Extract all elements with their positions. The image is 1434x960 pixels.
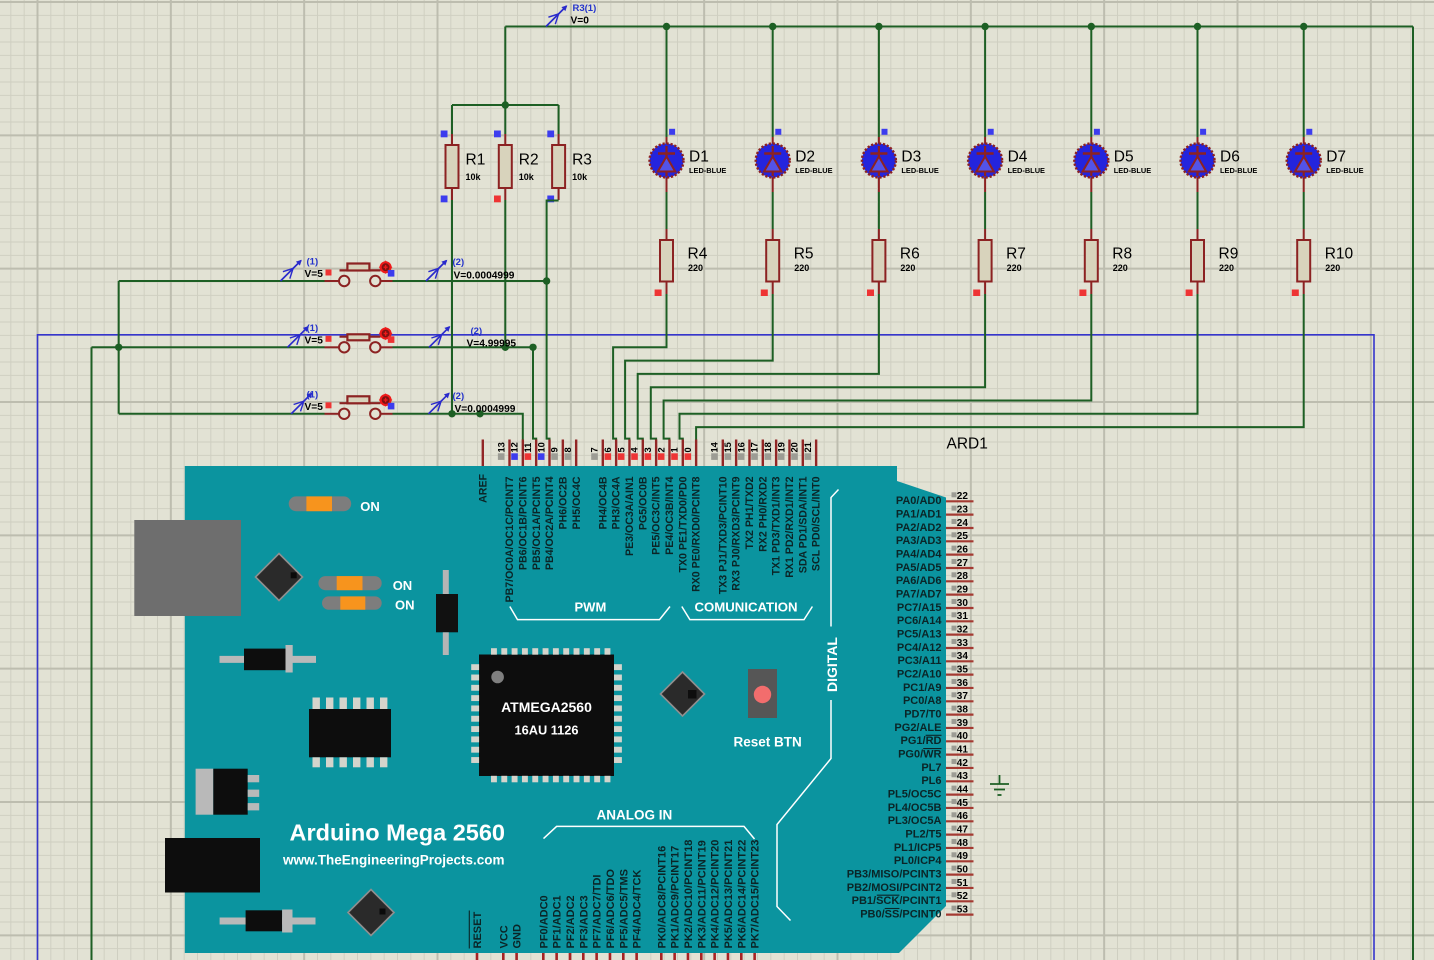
svg-text:220: 220	[1007, 263, 1022, 273]
svg-text:PB3/MISO/PCINT3: PB3/MISO/PCINT3	[847, 868, 942, 880]
svg-text:PF3/ADC3: PF3/ADC3	[578, 895, 590, 948]
svg-text:TX1 PD3/TXD1/INT3: TX1 PD3/TXD1/INT3	[771, 476, 783, 575]
svg-text:PA3/AD3: PA3/AD3	[896, 535, 942, 547]
svg-text:D5: D5	[1114, 149, 1134, 166]
svg-text:ARD1: ARD1	[947, 436, 988, 453]
svg-text:PC4/A12: PC4/A12	[897, 642, 942, 654]
svg-text:GND: GND	[512, 924, 524, 949]
svg-text:220: 220	[794, 263, 809, 273]
svg-text:R2: R2	[519, 152, 539, 169]
svg-text:R1: R1	[466, 152, 486, 169]
svg-text:LED-BLUE: LED-BLUE	[689, 166, 726, 175]
svg-text:PB5/OC1A/PCINT5: PB5/OC1A/PCINT5	[531, 476, 543, 570]
svg-text:PF7/ADC7/TDI: PF7/ADC7/TDI	[592, 875, 604, 949]
svg-text:PL6: PL6	[921, 775, 941, 787]
svg-text:V=0: V=0	[571, 16, 590, 27]
svg-text:31: 31	[957, 611, 969, 622]
svg-text:ATMEGA2560: ATMEGA2560	[501, 699, 592, 715]
svg-text:V=0.0004999: V=0.0004999	[454, 270, 515, 281]
svg-text:18: 18	[763, 442, 773, 452]
svg-text:(2): (2)	[453, 391, 465, 402]
svg-text:41: 41	[957, 744, 969, 755]
svg-text:PA7/AD7: PA7/AD7	[896, 588, 942, 600]
svg-text:26: 26	[957, 544, 969, 555]
svg-text:RX1 PD2/RXD1/INT2: RX1 PD2/RXD1/INT2	[784, 476, 796, 577]
svg-text:PK1/ADC9/PCINT17: PK1/ADC9/PCINT17	[670, 846, 682, 949]
svg-text:52: 52	[957, 891, 969, 902]
svg-text:V=0.0004999: V=0.0004999	[455, 404, 516, 415]
svg-text:10k: 10k	[572, 172, 588, 182]
svg-text:D6: D6	[1220, 149, 1240, 166]
svg-text:51: 51	[957, 878, 969, 889]
svg-text:2: 2	[656, 447, 666, 452]
svg-text:R10: R10	[1325, 246, 1354, 263]
svg-text:23: 23	[957, 504, 969, 515]
svg-text:LED-BLUE: LED-BLUE	[795, 166, 832, 175]
svg-text:R3: R3	[572, 152, 592, 169]
svg-text:www.TheEngineeringProjects.com: www.TheEngineeringProjects.com	[282, 853, 505, 868]
svg-text:PL1/ICP5: PL1/ICP5	[894, 842, 942, 854]
svg-text:PB0/SS/PCINT0: PB0/SS/PCINT0	[860, 908, 941, 920]
svg-text:45: 45	[957, 798, 969, 809]
svg-text:PG0/WR: PG0/WR	[898, 748, 941, 760]
svg-text:0: 0	[683, 447, 693, 452]
svg-text:37: 37	[957, 691, 969, 702]
svg-text:22: 22	[957, 491, 969, 502]
svg-text:PB4/OC2A/PCINT4: PB4/OC2A/PCINT4	[544, 476, 556, 570]
svg-text:PF2/ADC2: PF2/ADC2	[565, 895, 577, 948]
svg-text:ANALOG IN: ANALOG IN	[597, 808, 673, 823]
svg-text:AREF: AREF	[477, 473, 489, 502]
svg-text:42: 42	[957, 758, 969, 769]
svg-text:47: 47	[957, 824, 969, 835]
svg-text:17: 17	[750, 442, 760, 452]
svg-text:PG5/OC0B: PG5/OC0B	[637, 476, 649, 530]
svg-text:10k: 10k	[466, 172, 482, 182]
svg-text:19: 19	[776, 442, 786, 452]
svg-text:LED-BLUE: LED-BLUE	[1326, 166, 1363, 175]
svg-text:PL2/T5: PL2/T5	[905, 828, 941, 840]
svg-text:R8: R8	[1112, 246, 1132, 263]
svg-text:V=4.99995: V=4.99995	[467, 338, 517, 349]
svg-text:PC6/A14: PC6/A14	[897, 615, 943, 627]
svg-text:PE5/OC3C/INT5: PE5/OC3C/INT5	[651, 476, 663, 554]
svg-text:D2: D2	[795, 149, 815, 166]
svg-text:SDA PD1/SDA/INT1: SDA PD1/SDA/INT1	[797, 476, 809, 573]
svg-text:R7: R7	[1006, 246, 1026, 263]
svg-text:PL3/OC5A: PL3/OC5A	[888, 815, 942, 827]
svg-text:PB6/OC1B/PCINT6: PB6/OC1B/PCINT6	[517, 476, 529, 570]
svg-text:Reset BTN: Reset BTN	[734, 735, 802, 750]
svg-text:16: 16	[736, 442, 746, 452]
svg-text:44: 44	[957, 784, 969, 795]
svg-text:ON: ON	[360, 499, 380, 514]
svg-text:29: 29	[957, 584, 969, 595]
svg-text:PK2/ADC10/PCINT18: PK2/ADC10/PCINT18	[683, 840, 695, 949]
svg-text:24: 24	[957, 518, 969, 529]
svg-text:PC0/A8: PC0/A8	[903, 695, 942, 707]
svg-text:46: 46	[957, 811, 969, 822]
svg-text:PC1/A9: PC1/A9	[903, 682, 942, 694]
svg-text:36: 36	[957, 678, 969, 689]
svg-text:V=5: V=5	[305, 269, 324, 280]
svg-text:48: 48	[957, 838, 969, 849]
svg-text:4: 4	[630, 447, 640, 453]
svg-text:RX0 PE0/RXD0/PCINT8: RX0 PE0/RXD0/PCINT8	[691, 476, 703, 592]
svg-text:220: 220	[1113, 263, 1128, 273]
svg-text:(2): (2)	[453, 257, 465, 268]
svg-text:27: 27	[957, 558, 969, 569]
svg-text:39: 39	[957, 718, 969, 729]
svg-text:53: 53	[957, 904, 969, 915]
svg-text:11: 11	[523, 443, 533, 453]
svg-text:PA5/AD5: PA5/AD5	[896, 562, 942, 574]
svg-text:LED-BLUE: LED-BLUE	[1220, 166, 1257, 175]
svg-text:15: 15	[723, 442, 733, 452]
svg-text:(1): (1)	[307, 389, 319, 400]
svg-text:30: 30	[957, 598, 969, 609]
svg-text:PA1/AD1: PA1/AD1	[896, 508, 942, 520]
svg-text:1: 1	[670, 447, 680, 452]
svg-text:PK3/ADC11/PCINT19: PK3/ADC11/PCINT19	[696, 840, 708, 948]
svg-text:PK7/ADC15/PCINT23: PK7/ADC15/PCINT23	[750, 840, 762, 949]
svg-text:PB2/MOSI/PCINT2: PB2/MOSI/PCINT2	[847, 882, 942, 894]
svg-text:34: 34	[957, 651, 969, 662]
svg-text:(1): (1)	[307, 257, 319, 268]
svg-text:PA6/AD6: PA6/AD6	[896, 575, 942, 587]
svg-text:PE3/OC3A/AIN1: PE3/OC3A/AIN1	[624, 476, 636, 556]
svg-text:PWM: PWM	[575, 600, 607, 615]
svg-text:DIGITAL: DIGITAL	[824, 637, 840, 692]
svg-text:PK6/ADC14/PCINT22: PK6/ADC14/PCINT22	[736, 840, 748, 949]
svg-text:D7: D7	[1326, 149, 1346, 166]
svg-text:RESET: RESET	[472, 912, 484, 949]
svg-text:PL5/OC5C: PL5/OC5C	[888, 788, 942, 800]
svg-text:49: 49	[957, 851, 969, 862]
svg-text:LED-BLUE: LED-BLUE	[901, 166, 938, 175]
svg-text:D3: D3	[901, 149, 921, 166]
svg-text:R4: R4	[688, 246, 708, 263]
svg-text:RX3 PJ0/RXD3/PCINT9: RX3 PJ0/RXD3/PCINT9	[731, 476, 743, 590]
svg-text:(2): (2)	[471, 326, 483, 337]
svg-text:220: 220	[1325, 263, 1340, 273]
svg-text:PC7/A15: PC7/A15	[897, 602, 942, 614]
svg-text:20: 20	[790, 442, 800, 452]
svg-text:PB1/SCK/PCINT1: PB1/SCK/PCINT1	[852, 895, 942, 907]
svg-text:220: 220	[1219, 263, 1234, 273]
svg-text:PL7: PL7	[921, 762, 941, 774]
svg-text:PG2/ALE: PG2/ALE	[894, 722, 941, 734]
svg-text:PL0/ICP4: PL0/ICP4	[894, 855, 943, 867]
svg-text:10k: 10k	[519, 172, 535, 182]
svg-text:7: 7	[590, 447, 600, 452]
svg-text:13: 13	[496, 442, 506, 452]
svg-text:21: 21	[803, 442, 813, 452]
svg-text:33: 33	[957, 638, 969, 649]
svg-text:3: 3	[643, 447, 653, 452]
svg-text:28: 28	[957, 571, 969, 582]
svg-text:R5: R5	[794, 246, 814, 263]
svg-text:35: 35	[957, 664, 969, 675]
svg-text:PH6/OC2B: PH6/OC2B	[557, 476, 569, 529]
svg-text:LED-BLUE: LED-BLUE	[1114, 166, 1151, 175]
svg-text:220: 220	[900, 263, 915, 273]
svg-text:12: 12	[510, 442, 520, 452]
svg-text:D1: D1	[689, 149, 709, 166]
svg-text:10: 10	[536, 442, 546, 452]
svg-text:PK5/ADC13/PCINT21: PK5/ADC13/PCINT21	[723, 840, 735, 949]
svg-text:VCC: VCC	[498, 925, 510, 948]
svg-text:PK0/ADC8/PCINT16: PK0/ADC8/PCINT16	[656, 846, 668, 949]
svg-text:PK4/ADC12/PCINT20: PK4/ADC12/PCINT20	[710, 840, 722, 949]
svg-text:25: 25	[957, 531, 969, 542]
svg-text:8: 8	[563, 447, 573, 452]
svg-text:TX3 PJ1/TXD3/PCINT10: TX3 PJ1/TXD3/PCINT10	[717, 476, 729, 594]
svg-text:5: 5	[616, 447, 626, 452]
svg-text:(1): (1)	[307, 323, 319, 334]
svg-text:32: 32	[957, 624, 969, 635]
svg-text:Arduino Mega 2560: Arduino Mega 2560	[290, 820, 505, 846]
svg-text:V=5: V=5	[305, 335, 324, 346]
svg-text:PG1/RD: PG1/RD	[901, 735, 942, 747]
svg-text:V=5: V=5	[305, 402, 324, 413]
svg-text:16AU 1126: 16AU 1126	[514, 723, 578, 738]
svg-text:PF0/ADC0: PF0/ADC0	[538, 895, 550, 948]
svg-text:TX0 PE1/TXD0/PD0: TX0 PE1/TXD0/PD0	[677, 476, 689, 572]
svg-text:PF5/ADC5/TMS: PF5/ADC5/TMS	[618, 869, 630, 948]
svg-text:40: 40	[957, 731, 969, 742]
svg-text:PE4/OC3B/INT4: PE4/OC3B/INT4	[664, 476, 676, 554]
svg-text:ON: ON	[393, 578, 413, 593]
svg-text:SCL PD0/SCL/INT0: SCL PD0/SCL/INT0	[811, 476, 823, 571]
svg-text:PA0/AD0: PA0/AD0	[896, 495, 942, 507]
svg-text:PC2/A10: PC2/A10	[897, 668, 942, 680]
svg-text:PH4/OC4B: PH4/OC4B	[597, 476, 609, 529]
svg-text:PA2/AD2: PA2/AD2	[896, 522, 942, 534]
svg-text:PC3/A11: PC3/A11	[897, 655, 941, 667]
svg-text:PB7/OC0A/OC1C/PCINT7: PB7/OC0A/OC1C/PCINT7	[504, 476, 516, 602]
svg-text:PF6/ADC6/TDO: PF6/ADC6/TDO	[605, 869, 617, 949]
svg-text:R6: R6	[900, 246, 920, 263]
svg-text:38: 38	[957, 704, 969, 715]
svg-text:PF4/ADC4/TCK: PF4/ADC4/TCK	[632, 870, 644, 949]
svg-text:ON: ON	[395, 598, 415, 613]
svg-text:R3(1): R3(1)	[573, 3, 597, 14]
svg-text:43: 43	[957, 771, 969, 782]
svg-text:PA4/AD4: PA4/AD4	[896, 548, 943, 560]
svg-text:PH5/OC4C: PH5/OC4C	[571, 476, 583, 529]
svg-text:PD7/T0: PD7/T0	[904, 708, 941, 720]
svg-text:PH3/OC4A: PH3/OC4A	[611, 476, 623, 529]
svg-text:R9: R9	[1219, 246, 1239, 263]
svg-text:TX2 PH1/TXD2: TX2 PH1/TXD2	[744, 476, 756, 549]
svg-text:RX2 PH0/RXD2: RX2 PH0/RXD2	[757, 476, 769, 551]
svg-text:PL4/OC5B: PL4/OC5B	[888, 802, 942, 814]
svg-text:PC5/A13: PC5/A13	[897, 628, 942, 640]
svg-text:LED-BLUE: LED-BLUE	[1008, 166, 1045, 175]
svg-text:220: 220	[688, 263, 703, 273]
svg-text:D4: D4	[1008, 149, 1028, 166]
svg-text:PF1/ADC1: PF1/ADC1	[552, 895, 564, 948]
svg-text:COMUNICATION: COMUNICATION	[695, 600, 798, 615]
svg-text:14: 14	[710, 441, 720, 452]
svg-text:6: 6	[603, 447, 613, 452]
svg-text:50: 50	[957, 864, 969, 875]
svg-text:9: 9	[550, 447, 560, 452]
